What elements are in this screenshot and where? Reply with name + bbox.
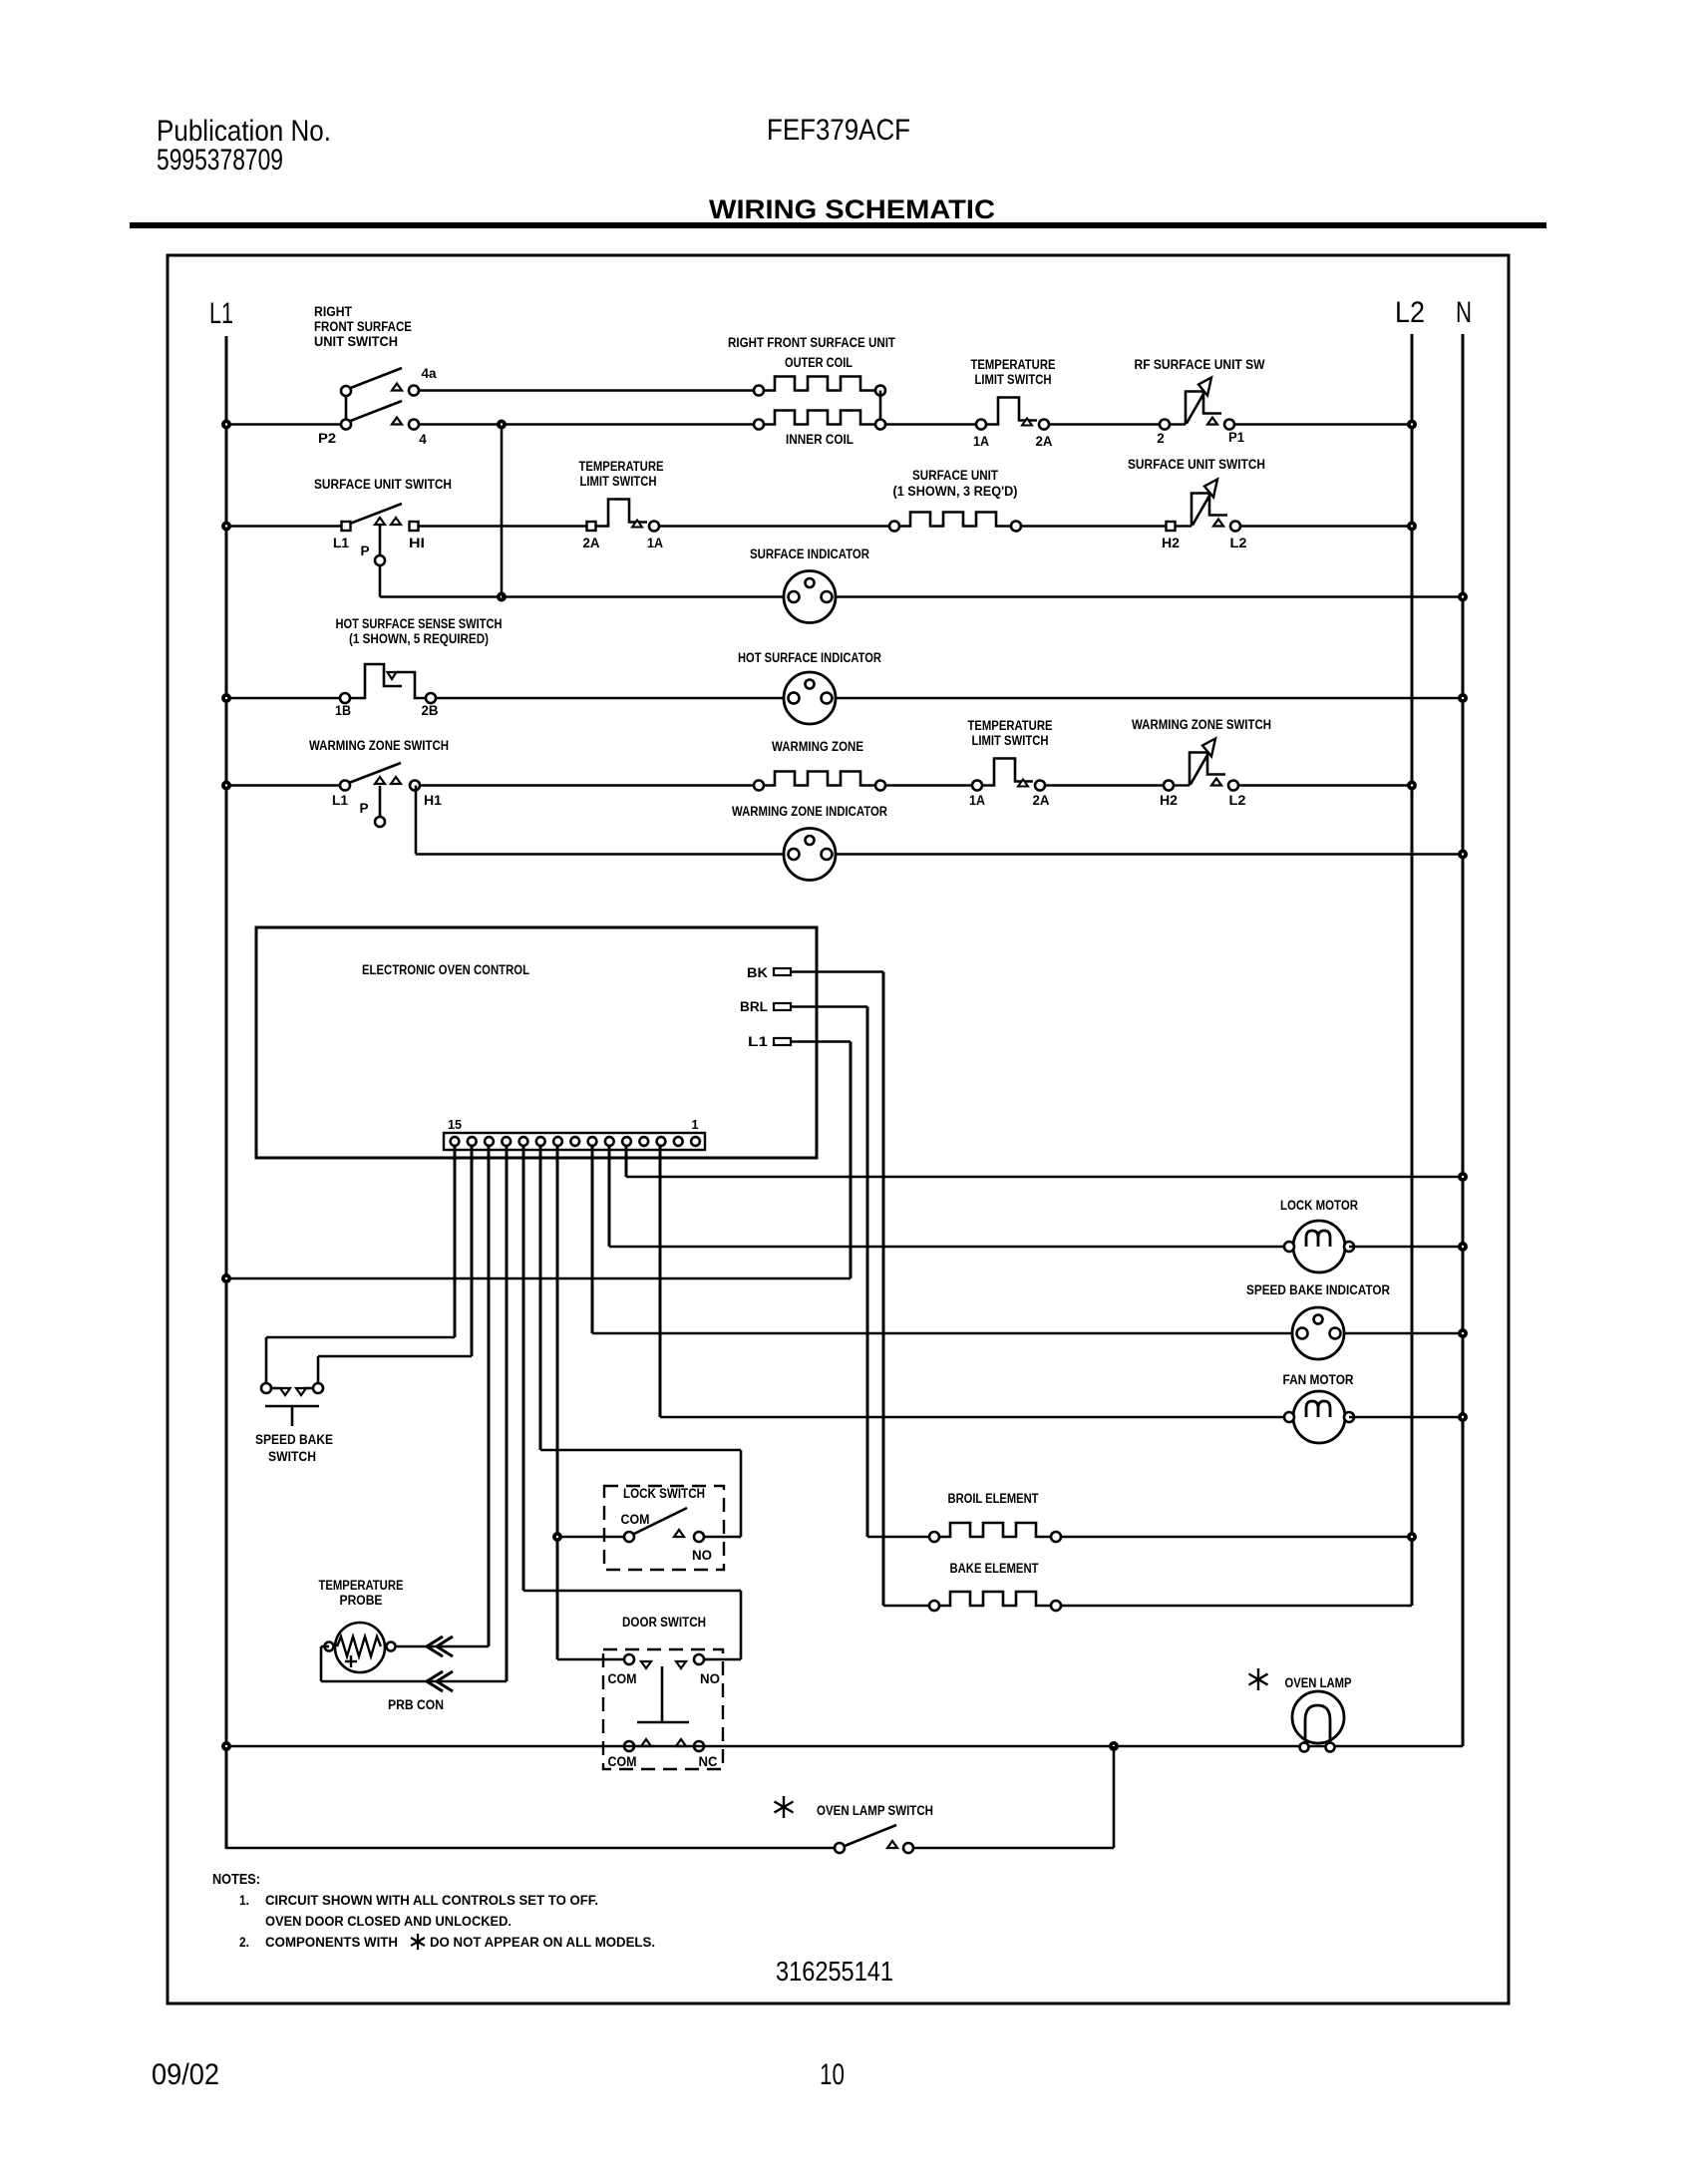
svg-text:FAN MOTOR: FAN MOTOR xyxy=(1283,1372,1354,1387)
junction row2-L2 xyxy=(1409,523,1415,529)
lamp surface indicator xyxy=(784,571,836,623)
svg-text:SURFACE UNIT SWITCH: SURFACE UNIT SWITCH xyxy=(314,477,452,492)
svg-text:TEMPERATURE: TEMPERATURE xyxy=(319,1578,404,1593)
wire speed bake indicator to N xyxy=(1344,1332,1463,1334)
svg-text:2A: 2A xyxy=(1033,793,1050,808)
wire 2A to warming zone switch right xyxy=(1046,784,1164,786)
junction lock motor-N xyxy=(1460,1244,1466,1250)
wire surface indicator to N xyxy=(836,595,1463,597)
svg-text:(1 SHOWN, 5 REQUIRED): (1 SHOWN, 5 REQUIRED) xyxy=(349,631,489,646)
svg-text:COM: COM xyxy=(608,1754,637,1769)
svg-text:L2: L2 xyxy=(1395,296,1425,329)
svg-text:INNER COIL: INNER COIL xyxy=(786,432,854,447)
wire pin3 to fan motor row xyxy=(659,1146,662,1417)
switch temperature limit row1 xyxy=(986,398,1037,425)
svg-text:SWITCH: SWITCH xyxy=(268,1449,316,1464)
svg-text:OVEN LAMP: OVEN LAMP xyxy=(1285,1675,1352,1690)
wire L1 bus vertical xyxy=(225,336,228,1849)
lamp hot surface indicator xyxy=(784,672,836,724)
svg-text:(1 SHOWN, 3 REQ'D): (1 SHOWN, 3 REQ'D) xyxy=(893,484,1018,499)
svg-text:2A: 2A xyxy=(583,536,600,550)
terminal BK xyxy=(774,968,791,975)
svg-text:OVEN DOOR CLOSED AND UNLOCKED.: OVEN DOOR CLOSED AND UNLOCKED. xyxy=(265,1914,512,1929)
wire row4 L1 to 1B xyxy=(226,697,340,699)
junction row3-N xyxy=(1460,593,1466,599)
svg-text:BROIL ELEMENT: BROIL ELEMENT xyxy=(948,1491,1040,1506)
svg-text:WARMING ZONE SWITCH: WARMING ZONE SWITCH xyxy=(1132,717,1271,732)
wire oven lamp row xyxy=(226,1745,1463,1747)
svg-text:P2: P2 xyxy=(318,431,336,446)
svg-text:2: 2 xyxy=(1157,431,1165,446)
wire to L2 bus row5 xyxy=(1238,784,1412,786)
resistor inner coil xyxy=(764,411,875,425)
svg-text:LIMIT SWITCH: LIMIT SWITCH xyxy=(972,733,1049,748)
resistor warming zone element xyxy=(764,772,875,786)
motor fan motor xyxy=(1293,1391,1345,1443)
connector pins 15..1 xyxy=(451,1137,460,1146)
star oven lamp asterisk xyxy=(1257,1668,1259,1690)
wire row2 L1 to switch xyxy=(226,525,341,527)
svg-text:BAKE ELEMENT: BAKE ELEMENT xyxy=(950,1561,1040,1576)
wire row1 L1 to switch xyxy=(226,423,341,425)
svg-text:NO: NO xyxy=(700,1671,720,1686)
terminal L1 output xyxy=(774,1038,791,1045)
svg-text:N: N xyxy=(1456,296,1472,329)
star oven lamp switch asterisk xyxy=(783,1796,785,1818)
thermistor temperature probe xyxy=(335,1623,385,1672)
resistor bake element xyxy=(939,1592,1051,1606)
wire L2term to L2 bus xyxy=(1240,525,1412,527)
junction row4-N xyxy=(1460,695,1466,701)
svg-text:L2: L2 xyxy=(1230,536,1247,550)
switch door switch lower contacts xyxy=(641,1739,651,1746)
wire BRL to broil element xyxy=(791,1005,867,1007)
lamp speed bake indicator xyxy=(1292,1307,1344,1359)
svg-text:DO NOT APPEAR ON ALL MODELS.: DO NOT APPEAR ON ALL MODELS. xyxy=(430,1935,655,1950)
svg-text:LIMIT SWITCH: LIMIT SWITCH xyxy=(580,474,657,489)
junction row1-L2 xyxy=(1409,421,1415,427)
junction row6-N xyxy=(1460,851,1466,857)
wire inner coil to 1A xyxy=(885,423,976,425)
svg-text:L1: L1 xyxy=(333,536,349,550)
svg-text:FRONT SURFACE: FRONT SURFACE xyxy=(314,319,412,334)
wire warming zone indicator to N xyxy=(836,853,1463,855)
svg-text:WARMING ZONE: WARMING ZONE xyxy=(772,739,863,754)
wire BK to bake element xyxy=(791,970,883,972)
svg-text:PRB CON: PRB CON xyxy=(388,1697,444,1712)
wire pin10 to lock switch NO xyxy=(539,1146,542,1450)
svg-text:SURFACE UNIT SWITCH: SURFACE UNIT SWITCH xyxy=(1128,457,1265,472)
svg-text:NOTES:: NOTES: xyxy=(212,1871,260,1888)
junction pin5-N xyxy=(1460,1174,1466,1180)
svg-text:LOCK SWITCH: LOCK SWITCH xyxy=(623,1486,705,1501)
wire row5 L1 to switch xyxy=(226,784,340,786)
wire fan motor to N xyxy=(1349,1416,1463,1418)
svg-text:1B: 1B xyxy=(335,703,351,718)
wire H1 drop to indicator row xyxy=(415,786,418,855)
svg-text:4a: 4a xyxy=(422,366,437,381)
svg-text:5995378709: 5995378709 xyxy=(157,144,283,177)
wire L2 bus vertical xyxy=(1411,334,1414,1606)
svg-text:H2: H2 xyxy=(1162,536,1180,550)
wire lock motor to N xyxy=(1349,1246,1463,1248)
svg-text:L1: L1 xyxy=(209,297,233,330)
wire HI to 2A xyxy=(419,525,586,527)
connector strip xyxy=(444,1133,705,1150)
wire pin15 to speed bake switch xyxy=(454,1146,457,1337)
svg-text:LOCK MOTOR: LOCK MOTOR xyxy=(1280,1198,1358,1213)
wire H1 to warming zone coil xyxy=(420,784,754,786)
svg-text:BK: BK xyxy=(747,965,768,980)
switch lock switch contacts xyxy=(634,1508,687,1534)
switch door switch upper contacts xyxy=(641,1661,651,1668)
svg-text:TEMPERATURE: TEMPERATURE xyxy=(971,357,1056,372)
wire pin9 to lock COM and door COM xyxy=(556,1146,559,1659)
svg-text:P: P xyxy=(359,801,368,816)
wire coil to H2 xyxy=(1021,525,1166,527)
svg-text:ELECTRONIC OVEN CONTROL: ELECTRONIC OVEN CONTROL xyxy=(362,962,529,977)
svg-text:L1: L1 xyxy=(748,1034,769,1049)
switch surface unit switch right (H2/L2) xyxy=(1176,525,1192,527)
svg-text:FEF379ACF: FEF379ACF xyxy=(767,114,910,147)
probe connector chevron top xyxy=(427,1637,443,1656)
junction L1-row5 xyxy=(223,782,229,788)
svg-text:PROBE: PROBE xyxy=(340,1593,383,1608)
svg-text:WARMING ZONE SWITCH: WARMING ZONE SWITCH xyxy=(309,738,449,753)
electronic oven control box xyxy=(256,927,817,1158)
svg-text:HOT SURFACE SENSE SWITCH: HOT SURFACE SENSE SWITCH xyxy=(336,616,503,631)
wire N bus vertical xyxy=(1462,334,1465,1746)
wire pin13 to probe xyxy=(488,1146,491,1646)
motor lock motor xyxy=(1293,1221,1345,1273)
svg-text:OUTER COIL: OUTER COIL xyxy=(785,355,853,370)
junction fan motor-N xyxy=(1460,1414,1466,1420)
svg-text:1A: 1A xyxy=(973,434,989,449)
svg-text:15: 15 xyxy=(448,1117,462,1132)
wire bake to L2 xyxy=(1061,1605,1412,1607)
svg-text:LIMIT SWITCH: LIMIT SWITCH xyxy=(975,372,1052,387)
svg-text:WIRING SCHEMATIC: WIRING SCHEMATIC xyxy=(709,194,995,224)
wire 4a branch to outer coil xyxy=(419,389,754,391)
svg-text:HI: HI xyxy=(409,536,425,550)
svg-text:SPEED BAKE: SPEED BAKE xyxy=(255,1432,333,1447)
lamp warming zone indicator xyxy=(784,829,836,881)
svg-text:RF SURFACE UNIT SW: RF SURFACE UNIT SW xyxy=(1135,357,1265,372)
svg-text:1A: 1A xyxy=(647,536,663,550)
svg-text:1A: 1A xyxy=(969,793,985,808)
svg-text:TEMPERATURE: TEMPERATURE xyxy=(579,459,664,474)
svg-text:COMPONENTS WITH: COMPONENTS WITH xyxy=(265,1935,398,1950)
svg-text:L1: L1 xyxy=(332,793,348,808)
junction row1 tap xyxy=(499,421,505,427)
wire coil to 1A row5 xyxy=(885,784,972,786)
wire P1 to L2 xyxy=(1234,423,1412,425)
door switch actuator link xyxy=(661,1666,664,1722)
svg-text:RIGHT FRONT SURFACE UNIT: RIGHT FRONT SURFACE UNIT xyxy=(728,335,896,350)
junction lamp switch tap xyxy=(1111,1743,1117,1749)
wire pin11 to door switch NO xyxy=(522,1146,525,1591)
svg-text:DOOR SWITCH: DOOR SWITCH xyxy=(622,1615,706,1630)
wire outer-inner coil link xyxy=(879,391,882,425)
junction L1 bus tap xyxy=(223,1275,229,1281)
svg-text:RIGHT: RIGHT xyxy=(314,304,353,319)
svg-text:SURFACE UNIT: SURFACE UNIT xyxy=(912,468,999,483)
svg-text:SURFACE INDICATOR: SURFACE INDICATOR xyxy=(750,546,869,561)
svg-text:NO: NO xyxy=(692,1548,712,1563)
wire pin6 to lock motor row xyxy=(608,1146,611,1247)
svg-text:1: 1 xyxy=(691,1117,698,1132)
svg-text:09/02: 09/02 xyxy=(152,2058,219,2091)
switch speed bake switch xyxy=(271,1387,280,1390)
junction L1-row4 xyxy=(223,695,229,701)
svg-text:NC: NC xyxy=(699,1754,718,1769)
terminal BRL xyxy=(774,1003,791,1010)
wire probe left lead xyxy=(321,1645,329,1648)
svg-text:H2: H2 xyxy=(1160,793,1178,808)
wire 2A to RF switch xyxy=(1049,423,1160,425)
svg-text:P: P xyxy=(360,544,369,558)
svg-text:BRL: BRL xyxy=(740,999,768,1014)
probe connector chevron bottom xyxy=(427,1671,443,1691)
wire oven lamp switch row xyxy=(226,1847,835,1849)
svg-text:CIRCUIT SHOWN WITH ALL CONTROL: CIRCUIT SHOWN WITH ALL CONTROLS SET TO O… xyxy=(265,1893,598,1908)
wire pin7 to speed bake indicator row xyxy=(591,1146,594,1333)
lamp oven lamp xyxy=(1292,1691,1344,1743)
schematic border frame xyxy=(168,255,1509,2003)
svg-text:2B: 2B xyxy=(422,703,439,718)
switch RF surface unit sw xyxy=(1170,423,1186,425)
wire 1A to surface unit coil xyxy=(660,525,889,527)
junction L1-row2 xyxy=(223,523,229,529)
svg-text:TEMPERATURE: TEMPERATURE xyxy=(968,718,1053,733)
wire to surface indicator xyxy=(502,595,784,597)
switch temperature limit row5 xyxy=(982,759,1033,786)
junction L1 lamp row xyxy=(223,1743,229,1749)
junction L1-row1 xyxy=(223,421,229,427)
switch warming zone switch right (H2/L2) xyxy=(1174,784,1190,786)
wire EOC L1 to L1 bus xyxy=(791,1040,851,1042)
door switch dashed box xyxy=(603,1649,723,1769)
resistor broil element xyxy=(939,1523,1051,1537)
svg-text:10: 10 xyxy=(820,2058,845,2091)
wire bake left xyxy=(883,1605,929,1607)
switch oven lamp switch xyxy=(845,1825,896,1846)
switch warming zone switch (L1/P/H1) xyxy=(349,763,401,783)
wire P pilot drop row2 xyxy=(379,565,382,597)
wire hot surface indicator to N xyxy=(836,697,1463,699)
svg-text:2.: 2. xyxy=(239,1935,249,1950)
header rule xyxy=(130,222,1546,228)
svg-text:OVEN LAMP SWITCH: OVEN LAMP SWITCH xyxy=(817,1803,933,1818)
junction broil-L2 xyxy=(1409,1534,1415,1540)
svg-text:UNIT SWITCH: UNIT SWITCH xyxy=(314,334,398,349)
svg-text:COM: COM xyxy=(621,1512,650,1527)
svg-text:SPEED BAKE INDICATOR: SPEED BAKE INDICATOR xyxy=(1246,1282,1390,1297)
wire pin12 to probe return xyxy=(506,1146,509,1681)
svg-text:COM: COM xyxy=(608,1671,637,1686)
wire broil left xyxy=(867,1536,929,1538)
wire row1 contact 4 to inner coil xyxy=(419,423,754,425)
svg-text:P1: P1 xyxy=(1228,430,1244,445)
svg-text:1.: 1. xyxy=(239,1893,249,1908)
lock switch dashed box xyxy=(604,1486,724,1570)
svg-text:316255141: 316255141 xyxy=(776,1956,893,1987)
resistor outer coil xyxy=(764,377,875,391)
junction row5-L2 xyxy=(1409,782,1415,788)
svg-text:HOT SURFACE INDICATOR: HOT SURFACE INDICATOR xyxy=(738,650,881,665)
wire pin5 to N xyxy=(625,1146,628,1177)
wire broil to L2 xyxy=(1061,1536,1412,1538)
switch temperature limit row2 xyxy=(596,500,647,527)
junction indicator row tap xyxy=(499,593,505,599)
junction pin9 lock COM xyxy=(554,1534,560,1540)
svg-text:L2: L2 xyxy=(1229,793,1246,808)
svg-text:4: 4 xyxy=(419,432,427,447)
svg-text:2A: 2A xyxy=(1036,434,1053,449)
wire row1 tap down to indicator row xyxy=(501,425,504,597)
resistor surface unit coil xyxy=(899,513,1011,527)
switch right front surface unit switch (P2/4/4a) xyxy=(345,391,348,425)
switch surface unit switch (L1/P/HI) xyxy=(350,504,402,524)
wire pin14 to speed bake switch xyxy=(471,1146,474,1356)
wire 2B to hot surface indicator xyxy=(436,697,784,699)
switch hot surface sense switch xyxy=(350,664,402,698)
junction speed bake indicator-N xyxy=(1460,1330,1466,1336)
svg-text:WARMING ZONE INDICATOR: WARMING ZONE INDICATOR xyxy=(732,804,887,819)
star note asterisk xyxy=(417,1934,419,1950)
svg-text:H1: H1 xyxy=(424,793,443,808)
